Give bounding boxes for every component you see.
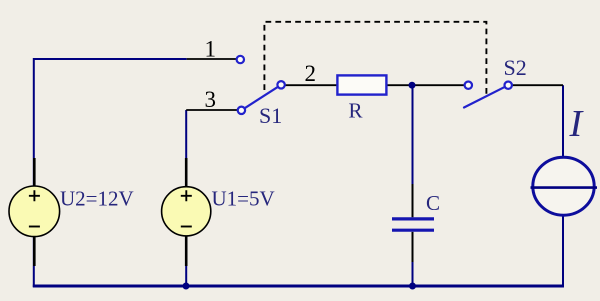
svg-text:2: 2 (305, 61, 317, 86)
svg-text:S1: S1 (259, 103, 282, 128)
svg-text:U2=12V: U2=12V (60, 186, 134, 210)
svg-text:C: C (426, 191, 440, 215)
svg-text:U1=5V: U1=5V (212, 186, 275, 210)
svg-text:S2: S2 (504, 55, 527, 80)
svg-text:R: R (349, 98, 363, 122)
svg-text:1: 1 (205, 37, 217, 62)
svg-text:I: I (569, 103, 585, 145)
svg-text:3: 3 (205, 87, 217, 112)
